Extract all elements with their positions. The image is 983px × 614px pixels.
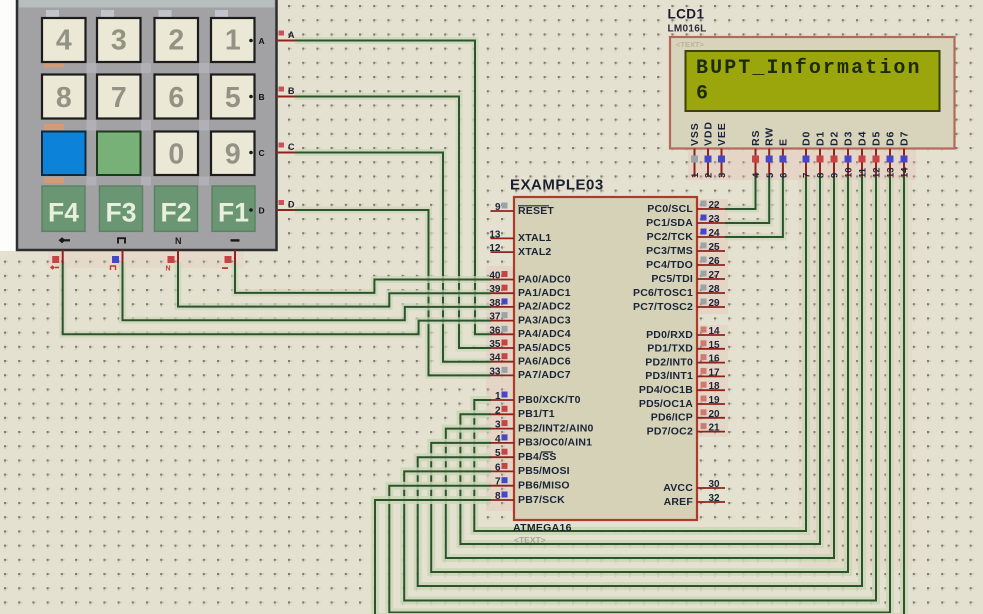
LCD1 screen <box>686 51 940 111</box>
svg-text:12: 12 <box>489 243 501 254</box>
svg-text:F2: F2 <box>161 198 192 228</box>
svg-text:6: 6 <box>495 462 501 473</box>
U1 pin 37 PA3/ADC3 <box>491 320 515 322</box>
svg-text:5: 5 <box>765 172 776 178</box>
wire keypad column 3 to U1 PA1 <box>178 262 491 307</box>
svg-text:PB7/SCK: PB7/SCK <box>518 494 565 506</box>
wire U1 PB0 to LCD D0 <box>474 177 806 531</box>
svg-text:AREF: AREF <box>664 496 694 508</box>
U1 pin 13 XTAL1 <box>491 237 515 239</box>
svg-text:AVCC: AVCC <box>663 482 693 494</box>
svg-text:16: 16 <box>709 354 721 365</box>
svg-text:D4: D4 <box>857 131 869 146</box>
U1 pin 21 PD7/OC2 <box>697 431 725 433</box>
keypad row pin B stub <box>277 96 296 98</box>
svg-text:PA5/ADC5: PA5/ADC5 <box>518 342 571 354</box>
svg-text:21: 21 <box>709 423 721 434</box>
svg-text:36: 36 <box>489 325 501 336</box>
LCD1 pin 8 D1 <box>819 149 821 178</box>
svg-text:PD7/OC2: PD7/OC2 <box>647 425 693 437</box>
svg-text:25: 25 <box>709 242 721 253</box>
svg-text:D6: D6 <box>885 131 897 146</box>
U1 pin 35 PA5/ADC5 <box>491 347 515 349</box>
wire net B (keypad row B to U1 PA5) <box>295 97 491 349</box>
svg-text:PC7/TOSC2: PC7/TOSC2 <box>633 301 693 313</box>
svg-text:VDD: VDD <box>703 121 715 146</box>
svg-text:33: 33 <box>489 366 501 377</box>
svg-text:PB4/SS: PB4/SS <box>518 451 557 463</box>
keypad row pin D stub <box>277 209 296 211</box>
wire U1 PB3 to LCD D3 <box>431 177 848 572</box>
wire U1 PB5 to LCD D5 <box>404 177 876 601</box>
U1 pin 7 PB6/MISO <box>491 485 515 487</box>
svg-text:34: 34 <box>489 353 501 364</box>
svg-text:1: 1 <box>690 172 701 178</box>
svg-text:6: 6 <box>168 82 184 114</box>
U1 pin 24 PC2/TCK <box>697 236 725 238</box>
wire U1 PB2 to LCD D2 <box>446 177 834 558</box>
svg-text:PD6/ICP: PD6/ICP <box>651 412 693 424</box>
svg-text:18: 18 <box>709 381 721 392</box>
wire net D (keypad row D to U1 PA7) <box>295 210 491 375</box>
svg-text:F4: F4 <box>48 198 79 228</box>
svg-text:40: 40 <box>489 271 501 282</box>
svg-text:E: E <box>777 138 789 146</box>
LCD1 pin 9 D2 <box>833 149 835 178</box>
keypad row pin markers A B C D <box>249 39 253 43</box>
svg-text:PD4/OC1B: PD4/OC1B <box>639 384 693 396</box>
svg-text:PB2/INT2/AIN0: PB2/INT2/AIN0 <box>518 422 594 434</box>
svg-text:VEE: VEE <box>716 122 728 146</box>
U1 pin 18 PD4/OC1B <box>697 389 725 391</box>
wire keypad column 1 to U1 PA3 <box>63 262 491 334</box>
U1 pin 22 PC0/SCL <box>697 208 725 210</box>
U1 pin 33 PA7/ADC7 <box>491 374 515 376</box>
svg-text:17: 17 <box>709 367 721 378</box>
keypad column pin 4 stub <box>234 250 236 263</box>
LCD1 pin 7 D0 <box>805 149 807 178</box>
U1 pin 38 PA2/ADC2 <box>491 306 515 308</box>
svg-text:3: 3 <box>111 25 127 57</box>
svg-text:LCD1: LCD1 <box>668 7 705 22</box>
keypad button F4 <box>42 186 85 231</box>
svg-text:D: D <box>288 200 295 210</box>
wire U1 PB1 to LCD D1 <box>460 177 820 544</box>
svg-text:RW: RW <box>764 127 776 146</box>
U1 pin 29 PC7/TOSC2 <box>697 306 725 308</box>
keypad row pin A stub <box>277 40 296 42</box>
svg-text:PC6/TOSC1: PC6/TOSC1 <box>633 287 693 299</box>
net label B <box>279 87 285 92</box>
svg-text:D7: D7 <box>899 131 911 146</box>
svg-text:PB6/MISO: PB6/MISO <box>518 480 570 492</box>
U1 pin 9 RESET <box>491 210 515 212</box>
LCD1 body <box>670 37 955 149</box>
svg-text:38: 38 <box>489 298 501 309</box>
svg-text:5: 5 <box>225 82 241 114</box>
keypad button F1 <box>212 186 255 231</box>
svg-text:BUPT_Information: BUPT_Information <box>696 57 922 80</box>
svg-text:19: 19 <box>709 395 721 406</box>
wire U1 PC1 to LCD RW <box>725 177 769 223</box>
svg-text:D: D <box>259 206 265 216</box>
LCD1 pin 1 VSS <box>694 149 696 178</box>
svg-text:4: 4 <box>751 172 762 178</box>
svg-text:D0: D0 <box>801 131 813 146</box>
svg-text:A: A <box>288 30 295 40</box>
svg-text:B: B <box>288 86 295 96</box>
LCD1 pin 13 D6 <box>889 149 891 178</box>
svg-text:F1: F1 <box>218 198 249 228</box>
svg-text:9: 9 <box>830 173 841 178</box>
U1 pin 1 PB0/XCK/T0 <box>491 399 515 401</box>
LCD1 pin 11 D4 <box>861 149 863 178</box>
svg-text:37: 37 <box>489 312 501 323</box>
keypad column symbols <box>59 236 240 246</box>
svg-text:C: C <box>288 142 295 152</box>
U1 pin 36 PA4/ADC4 <box>491 333 515 335</box>
svg-text:XTAL1: XTAL1 <box>518 232 551 244</box>
svg-text:7: 7 <box>802 173 813 178</box>
svg-text:D1: D1 <box>815 131 827 146</box>
U1 pin 12 XTAL2 <box>491 251 515 253</box>
svg-text:2: 2 <box>495 405 501 416</box>
LCD1 pin 4 RS <box>755 149 757 178</box>
U1 pin 27 PC5/TDI <box>697 278 725 280</box>
svg-text:8: 8 <box>56 82 72 114</box>
svg-text:14: 14 <box>709 326 721 337</box>
keypad button 5 <box>211 75 255 119</box>
U1 pin 40 PA0/ADC0 <box>491 279 515 281</box>
svg-text:PC5/TDI: PC5/TDI <box>651 273 693 285</box>
svg-text:PA6/ADC6: PA6/ADC6 <box>518 356 571 368</box>
svg-text:PB3/OC0/AIN1: PB3/OC0/AIN1 <box>518 437 592 449</box>
U1 pin 3 PB2/INT2/AIN0 <box>491 428 515 430</box>
U1 pin 26 PC4/TDO <box>697 264 725 266</box>
svg-text:PC3/TMS: PC3/TMS <box>646 245 693 257</box>
keypad button 1 <box>211 18 255 62</box>
keypad button 0 <box>155 132 199 176</box>
svg-text:20: 20 <box>709 409 721 420</box>
svg-text:PA7/ADC7: PA7/ADC7 <box>518 369 571 381</box>
svg-text:PA3/ADC3: PA3/ADC3 <box>518 314 571 326</box>
keypad orange artifacts <box>44 63 64 184</box>
svg-text:A: A <box>259 36 265 46</box>
svg-text:9: 9 <box>225 139 241 171</box>
keypad button 8 <box>42 75 86 119</box>
U1 pin 5 PB4/SS <box>491 456 515 458</box>
svg-text:PA2/ADC2: PA2/ADC2 <box>518 301 571 313</box>
wire U1 PC2 to LCD E <box>725 177 783 237</box>
U1 pin 14 PD0/RXD <box>697 334 725 336</box>
svg-text:F3: F3 <box>106 198 137 228</box>
keypad column pin 1 stub <box>62 250 64 263</box>
svg-text:EXAMPLE03: EXAMPLE03 <box>510 177 604 194</box>
U1 pin 23 PC1/SDA <box>697 222 725 224</box>
svg-text:<TEXT>: <TEXT> <box>676 40 705 49</box>
svg-text:0: 0 <box>168 139 184 171</box>
svg-text:B: B <box>259 92 265 102</box>
svg-text:1: 1 <box>225 25 241 57</box>
svg-text:35: 35 <box>489 339 501 350</box>
svg-text:RS: RS <box>750 130 762 146</box>
U1 pin 32 AREF <box>697 501 725 503</box>
svg-text:1: 1 <box>495 391 501 402</box>
wire U1 PB4 to LCD D4 <box>418 177 862 586</box>
svg-text:7: 7 <box>111 82 127 114</box>
U1 pin 25 PC3/TMS <box>697 250 725 252</box>
svg-text:27: 27 <box>709 270 721 281</box>
svg-text:PA4/ADC4: PA4/ADC4 <box>518 328 571 340</box>
svg-text:3: 3 <box>495 420 501 431</box>
svg-text:30: 30 <box>709 479 721 490</box>
U1 pin 39 PA1/ADC1 <box>491 292 515 294</box>
svg-text:PD2/INT0: PD2/INT0 <box>645 356 693 368</box>
U1 pin 6 PB5/MOSI <box>491 470 515 472</box>
svg-text:32: 32 <box>709 493 721 504</box>
keypad button 2 <box>155 18 199 62</box>
net label D <box>279 200 285 205</box>
keypad button 4 <box>42 18 86 62</box>
keypad button 7 <box>97 75 141 119</box>
svg-text:2: 2 <box>168 25 184 57</box>
keypad button plunger tabs <box>46 10 228 18</box>
svg-text:ATMEGA16: ATMEGA16 <box>513 522 572 534</box>
LCD1 pin 14 D7 <box>903 149 905 178</box>
svg-text:22: 22 <box>709 200 721 211</box>
wire net C (keypad row C to U1 PA6) <box>295 153 491 362</box>
svg-text:PB5/MOSI: PB5/MOSI <box>518 465 570 477</box>
keypad button 6 <box>155 75 199 119</box>
svg-text:PC1/SDA: PC1/SDA <box>646 217 693 229</box>
svg-text:PB1/T1: PB1/T1 <box>518 408 555 420</box>
svg-text:23: 23 <box>709 214 721 225</box>
svg-text:PC2/TCK: PC2/TCK <box>647 231 694 243</box>
U1 pin 4 PB3/OC0/AIN1 <box>491 442 515 444</box>
wire U1 PB6 to LCD D6 <box>389 177 890 613</box>
svg-text:D3: D3 <box>843 131 855 146</box>
svg-text:PD0/RXD: PD0/RXD <box>646 329 693 341</box>
svg-text:11: 11 <box>858 167 869 178</box>
svg-text:C: C <box>259 148 265 158</box>
svg-text:14: 14 <box>900 167 911 178</box>
svg-text:D2: D2 <box>829 131 841 146</box>
wire U1 PB7 to LCD D7 <box>375 177 904 614</box>
net label C <box>279 143 285 148</box>
keypad blue button <box>42 132 86 176</box>
svg-text:<TEXT>: <TEXT> <box>514 535 546 545</box>
LCD1 pin 12 D5 <box>875 149 877 178</box>
keypad body <box>17 0 277 250</box>
svg-text:12: 12 <box>872 167 883 178</box>
svg-text:XTAL2: XTAL2 <box>518 246 551 258</box>
U1 pin 17 PD3/INT1 <box>697 375 725 377</box>
svg-text:28: 28 <box>709 284 721 295</box>
LCD1 pin 2 VDD <box>707 149 709 178</box>
svg-text:N: N <box>166 266 171 273</box>
svg-text:PD1/TXD: PD1/TXD <box>647 343 693 355</box>
U1 pin 8 PB7/SCK <box>491 499 515 501</box>
U1 pin 28 PC6/TOSC1 <box>697 292 725 294</box>
svg-text:PA1/ADC1: PA1/ADC1 <box>518 287 571 299</box>
svg-text:4: 4 <box>56 25 72 57</box>
svg-text:7: 7 <box>495 477 501 488</box>
svg-text:13: 13 <box>489 229 501 240</box>
svg-text:RESET: RESET <box>518 205 554 217</box>
keypad green button <box>97 132 141 176</box>
keypad button 3 <box>97 18 141 62</box>
U1 pin 15 PD1/TXD <box>697 348 725 350</box>
svg-text:13: 13 <box>886 167 897 178</box>
svg-text:PD5/OC1A: PD5/OC1A <box>639 398 693 410</box>
wire U1 PC0 to LCD RS <box>725 177 756 209</box>
U1 pin 2 PB1/T1 <box>491 413 515 415</box>
svg-text:VSS: VSS <box>689 122 701 146</box>
wire keypad column 2 to U1 PA2 <box>123 262 492 320</box>
net label A <box>279 31 285 36</box>
svg-text:5: 5 <box>495 448 501 459</box>
svg-text:PC0/SCL: PC0/SCL <box>647 203 693 215</box>
svg-text:26: 26 <box>709 256 721 267</box>
LCD1 pin 3 VEE <box>721 149 723 178</box>
svg-text:D5: D5 <box>871 131 883 146</box>
svg-text:10: 10 <box>844 167 855 178</box>
svg-text:39: 39 <box>489 284 501 295</box>
LCD1 pin 10 D3 <box>847 149 849 178</box>
LCD1 pin 5 RW <box>768 149 770 178</box>
U1 pin 30 AVCC <box>697 487 725 489</box>
svg-text:6: 6 <box>779 173 790 178</box>
svg-text:4: 4 <box>495 434 501 445</box>
svg-text:9: 9 <box>495 202 501 213</box>
svg-text:PD3/INT1: PD3/INT1 <box>645 370 693 382</box>
wire net A (keypad row A to U1 PA4) <box>295 41 491 335</box>
svg-text:6: 6 <box>696 83 708 106</box>
keypad column pin 3 stub <box>177 250 179 263</box>
U1 pin 19 PD5/OC1A <box>697 403 725 405</box>
svg-text:8: 8 <box>495 491 501 502</box>
keypad button F2 <box>155 186 198 231</box>
keypad column net labels <box>50 265 228 272</box>
svg-text:PB0/XCK/T0: PB0/XCK/T0 <box>518 394 581 406</box>
wire keypad column 4 to U1 PA0 <box>235 262 491 293</box>
U1 pin 20 PD6/ICP <box>697 417 725 419</box>
U1 pin 16 PD2/INT0 <box>697 362 725 364</box>
svg-text:PA0/ADC0: PA0/ADC0 <box>518 273 571 285</box>
svg-text:PC4/TDO: PC4/TDO <box>646 259 693 271</box>
svg-text:N: N <box>175 236 182 246</box>
U1 ATMEGA16 body <box>514 197 697 520</box>
keypad row pin C stub <box>277 152 296 154</box>
svg-text:8: 8 <box>816 173 827 178</box>
keypad column pin 2 stub <box>122 250 124 263</box>
keypad button F3 <box>100 186 143 231</box>
svg-text:24: 24 <box>709 228 721 239</box>
svg-text:2: 2 <box>704 173 715 178</box>
svg-text:15: 15 <box>709 340 721 351</box>
svg-text:LM016L: LM016L <box>668 24 707 35</box>
LCD1 pin 6 E <box>782 149 784 178</box>
svg-text:3: 3 <box>717 173 728 178</box>
svg-text:29: 29 <box>709 298 721 309</box>
keypad button 9 <box>211 132 255 176</box>
U1 pin 34 PA6/ADC6 <box>491 361 515 363</box>
